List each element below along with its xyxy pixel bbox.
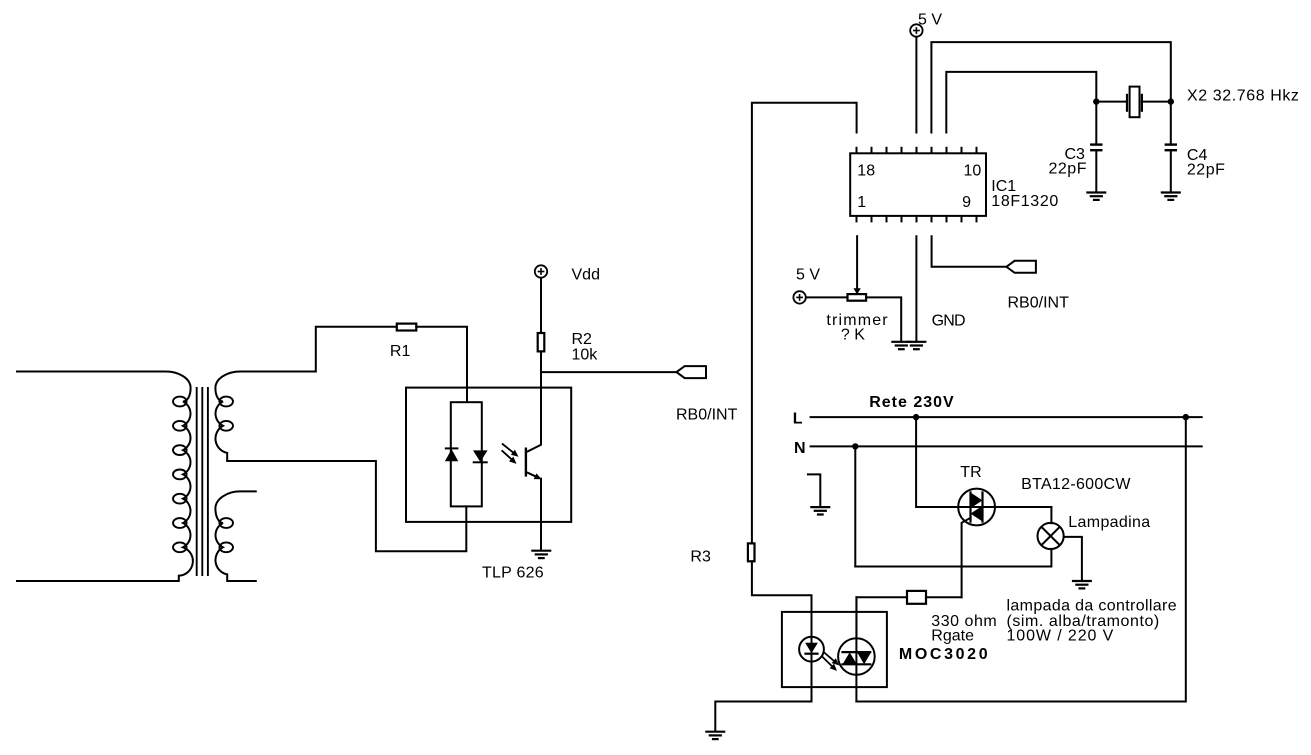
svg-text:5 V: 5 V <box>796 267 820 284</box>
svg-text:100W / 220 V: 100W / 220 V <box>1007 628 1115 645</box>
svg-text:9: 9 <box>962 194 971 211</box>
svg-text:R1: R1 <box>390 343 411 360</box>
svg-text:10k: 10k <box>572 347 599 364</box>
svg-text:RB0/INT: RB0/INT <box>676 406 738 423</box>
svg-text:22pF: 22pF <box>1049 161 1087 178</box>
svg-text:TLP 626: TLP 626 <box>482 565 544 582</box>
svg-text:TR: TR <box>960 464 981 481</box>
svg-text:R2: R2 <box>572 331 593 348</box>
svg-text:1: 1 <box>857 194 866 211</box>
svg-text:MOC3020: MOC3020 <box>899 646 990 663</box>
svg-text:? K: ? K <box>841 326 865 343</box>
svg-text:Rgate: Rgate <box>931 628 974 645</box>
svg-text:Vdd: Vdd <box>572 267 600 284</box>
svg-text:22pF: 22pF <box>1187 161 1225 178</box>
svg-text:L: L <box>793 411 803 428</box>
svg-text:Rete 230V: Rete 230V <box>869 394 955 411</box>
svg-text:N: N <box>794 440 806 457</box>
svg-text:18: 18 <box>857 163 875 180</box>
svg-text:GND: GND <box>932 313 965 330</box>
svg-text:X2 32.768 Hkz: X2 32.768 Hkz <box>1187 88 1300 105</box>
svg-text:RB0/INT: RB0/INT <box>1008 295 1070 312</box>
svg-text:BTA12-600CW: BTA12-600CW <box>1021 476 1131 493</box>
svg-text:18F1320: 18F1320 <box>991 193 1059 210</box>
svg-text:5 V: 5 V <box>918 12 942 29</box>
svg-text:R3: R3 <box>690 548 711 565</box>
svg-text:Lampadina: Lampadina <box>1068 514 1150 531</box>
svg-text:10: 10 <box>964 163 982 180</box>
